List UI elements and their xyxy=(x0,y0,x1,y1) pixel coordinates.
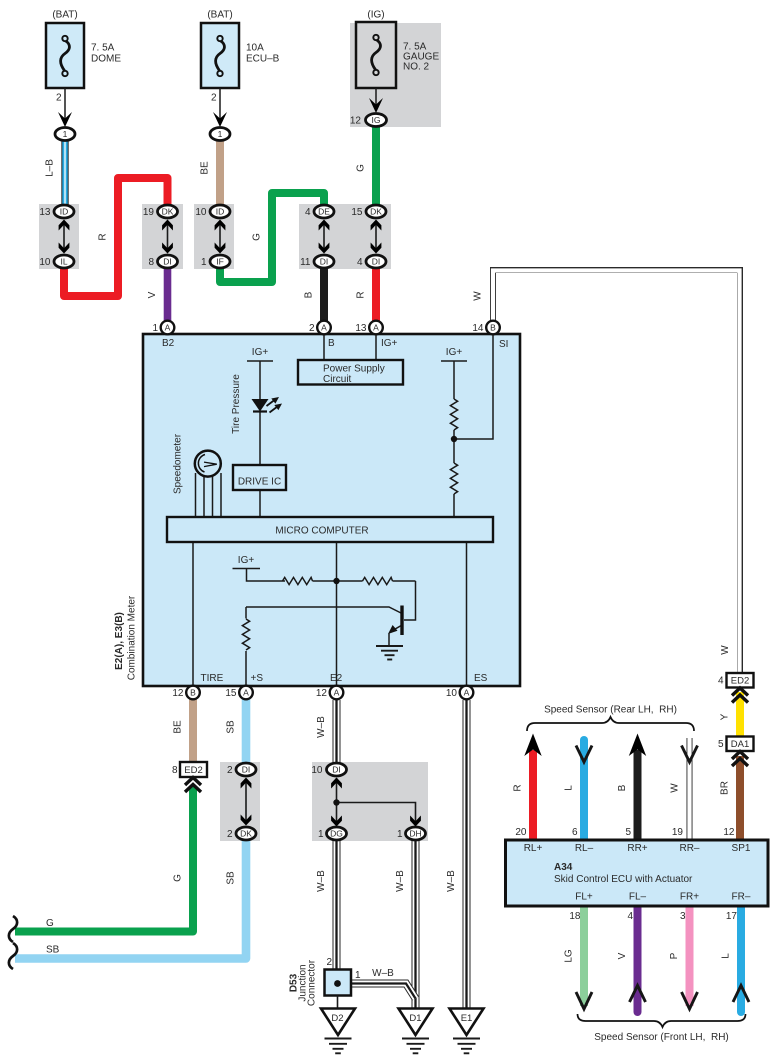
svg-text:W–B: W–B xyxy=(395,870,406,892)
svg-text:DH: DH xyxy=(409,829,421,839)
svg-text:Speed Sensor (Rear LH, RH): Speed Sensor (Rear LH, RH) xyxy=(544,705,677,716)
svg-text:13: 13 xyxy=(355,323,367,334)
svg-text:19: 19 xyxy=(143,207,155,218)
svg-text:10A: 10A xyxy=(246,43,264,54)
svg-text:8: 8 xyxy=(172,765,178,776)
svg-text:A: A xyxy=(321,323,327,333)
svg-text:B: B xyxy=(190,688,196,698)
svg-text:G: G xyxy=(252,233,263,241)
svg-text:14: 14 xyxy=(472,323,484,334)
svg-text:SB: SB xyxy=(226,720,237,734)
svg-text:LG: LG xyxy=(564,949,575,963)
svg-text:P: P xyxy=(669,952,680,959)
svg-text:Y: Y xyxy=(720,713,731,720)
svg-text:Tire Pressure: Tire Pressure xyxy=(231,374,242,434)
svg-text:(BAT): (BAT) xyxy=(52,10,77,21)
svg-text:2: 2 xyxy=(56,93,62,104)
svg-text:RL–: RL– xyxy=(575,843,594,854)
svg-text:5: 5 xyxy=(625,827,631,838)
svg-text:G: G xyxy=(46,918,54,929)
svg-text:8: 8 xyxy=(148,257,154,268)
svg-text:DI: DI xyxy=(163,257,172,267)
svg-text:B2: B2 xyxy=(162,338,175,349)
svg-text:B: B xyxy=(328,338,335,349)
svg-text:W–B: W–B xyxy=(316,716,327,738)
svg-text:1: 1 xyxy=(355,970,361,981)
svg-text:20: 20 xyxy=(515,827,527,838)
svg-text:E1: E1 xyxy=(461,1013,473,1024)
svg-text:DI: DI xyxy=(372,257,381,267)
svg-text:DK: DK xyxy=(370,207,382,217)
svg-text:E2: E2 xyxy=(330,673,343,684)
svg-text:1: 1 xyxy=(201,257,207,268)
svg-text:D1: D1 xyxy=(409,1013,421,1024)
svg-text:V: V xyxy=(147,291,158,298)
svg-text:10: 10 xyxy=(39,257,51,268)
svg-text:DG: DG xyxy=(330,829,343,839)
svg-text:W: W xyxy=(473,291,484,301)
svg-text:2: 2 xyxy=(326,957,332,968)
svg-text:15: 15 xyxy=(351,207,363,218)
svg-text:W–B: W–B xyxy=(372,968,394,979)
svg-text:IF: IF xyxy=(216,257,224,267)
svg-text:B: B xyxy=(304,291,315,298)
svg-text:E2(A), E3(B): E2(A), E3(B) xyxy=(114,612,125,670)
svg-text:7. 5A: 7. 5A xyxy=(91,43,115,54)
svg-text:IG+: IG+ xyxy=(381,338,398,349)
svg-text:10: 10 xyxy=(195,207,207,218)
svg-text:IG+: IG+ xyxy=(446,347,463,358)
svg-text:A34: A34 xyxy=(554,862,573,873)
svg-text:ED2: ED2 xyxy=(731,676,749,687)
svg-text:Power Supply: Power Supply xyxy=(323,364,385,375)
svg-text:SB: SB xyxy=(46,945,60,956)
svg-text:IL: IL xyxy=(60,257,67,267)
svg-text:1: 1 xyxy=(218,129,223,139)
svg-text:ED2: ED2 xyxy=(184,765,202,776)
svg-text:W–B: W–B xyxy=(316,870,327,892)
svg-text:11: 11 xyxy=(300,257,311,268)
svg-text:ID: ID xyxy=(60,207,69,217)
svg-text:L: L xyxy=(564,785,575,791)
svg-text:A: A xyxy=(464,688,470,698)
svg-text:RL+: RL+ xyxy=(524,843,543,854)
svg-text:DK: DK xyxy=(162,207,174,217)
svg-text:1: 1 xyxy=(397,829,403,840)
svg-text:12: 12 xyxy=(350,116,362,127)
svg-text:2: 2 xyxy=(227,765,233,776)
svg-text:ECU–B: ECU–B xyxy=(246,54,280,65)
svg-text:R: R xyxy=(98,233,109,240)
svg-text:FR–: FR– xyxy=(732,892,751,903)
svg-text:Speedometer: Speedometer xyxy=(173,433,184,494)
svg-text:W: W xyxy=(670,783,681,793)
svg-text:FR+: FR+ xyxy=(680,892,699,903)
svg-text:(BAT): (BAT) xyxy=(207,10,232,21)
svg-text:DOME: DOME xyxy=(91,54,121,65)
svg-text:G: G xyxy=(173,874,184,882)
svg-text:BR: BR xyxy=(720,781,731,795)
svg-text:4: 4 xyxy=(305,207,311,218)
svg-text:ID: ID xyxy=(216,207,225,217)
svg-text:1: 1 xyxy=(152,323,158,334)
svg-text:DE: DE xyxy=(318,207,330,217)
svg-text:2: 2 xyxy=(309,323,315,334)
svg-text:Circuit: Circuit xyxy=(323,374,352,385)
svg-text:W: W xyxy=(720,645,731,655)
svg-text:B: B xyxy=(617,784,628,791)
svg-text:6: 6 xyxy=(572,827,578,838)
svg-text:R: R xyxy=(513,784,524,791)
svg-text:10: 10 xyxy=(311,765,323,776)
svg-text:SB: SB xyxy=(226,871,237,885)
svg-text:5: 5 xyxy=(718,739,724,750)
svg-text:DK: DK xyxy=(240,829,252,839)
svg-text:SI: SI xyxy=(499,339,508,350)
svg-text:B: B xyxy=(490,323,496,333)
svg-text:TIRE: TIRE xyxy=(201,673,224,684)
svg-text:17: 17 xyxy=(726,911,738,922)
svg-text:Connector: Connector xyxy=(307,959,318,1006)
svg-text:MICRO COMPUTER: MICRO COMPUTER xyxy=(275,526,368,537)
svg-text:IG+: IG+ xyxy=(252,347,269,358)
svg-text:FL+: FL+ xyxy=(575,892,593,903)
svg-text:A: A xyxy=(165,323,171,333)
svg-text:IG+: IG+ xyxy=(238,555,255,566)
svg-text:Speed Sensor (Front LH, RH): Speed Sensor (Front LH, RH) xyxy=(594,1032,729,1043)
svg-text:12: 12 xyxy=(723,827,735,838)
svg-text:W–B: W–B xyxy=(446,870,457,892)
svg-text:18: 18 xyxy=(569,911,581,922)
svg-text:D2: D2 xyxy=(331,1013,343,1024)
svg-text:NO. 2: NO. 2 xyxy=(403,62,430,73)
svg-text:19: 19 xyxy=(672,827,684,838)
svg-text:BE: BE xyxy=(200,161,211,175)
svg-text:IG: IG xyxy=(372,115,381,125)
svg-text:L: L xyxy=(721,953,732,959)
svg-text:15: 15 xyxy=(225,688,237,699)
svg-text:3: 3 xyxy=(680,911,686,922)
svg-text:(IG): (IG) xyxy=(367,10,384,21)
svg-text:A: A xyxy=(373,323,379,333)
svg-text:1: 1 xyxy=(63,129,68,139)
svg-text:Skid Control ECU with Actuator: Skid Control ECU with Actuator xyxy=(554,874,693,885)
svg-text:FL–: FL– xyxy=(629,892,647,903)
svg-text:DI: DI xyxy=(242,765,251,775)
svg-text:R: R xyxy=(356,291,367,298)
svg-text:A: A xyxy=(243,688,249,698)
svg-text:RR+: RR+ xyxy=(627,843,647,854)
svg-text:DRIVE IC: DRIVE IC xyxy=(238,477,281,488)
svg-text:BE: BE xyxy=(173,720,184,734)
svg-text:13: 13 xyxy=(39,207,51,218)
svg-text:+S: +S xyxy=(251,673,264,684)
svg-text:DI: DI xyxy=(320,257,329,267)
svg-text:4: 4 xyxy=(357,257,363,268)
svg-text:RR–: RR– xyxy=(679,843,699,854)
svg-text:12: 12 xyxy=(316,688,328,699)
svg-text:10: 10 xyxy=(446,688,458,699)
svg-text:DA1: DA1 xyxy=(731,739,749,750)
svg-text:SP1: SP1 xyxy=(732,843,751,854)
svg-text:A: A xyxy=(334,688,340,698)
svg-text:L–B: L–B xyxy=(45,159,56,177)
svg-text:2: 2 xyxy=(227,829,233,840)
svg-text:DI: DI xyxy=(332,765,341,775)
svg-text:G: G xyxy=(356,164,367,172)
svg-text:12: 12 xyxy=(172,688,184,699)
svg-text:V: V xyxy=(617,952,628,959)
svg-text:4: 4 xyxy=(718,676,724,687)
svg-text:Combination Meter: Combination Meter xyxy=(127,595,138,680)
svg-text:2: 2 xyxy=(211,93,217,104)
svg-text:ES: ES xyxy=(474,673,488,684)
svg-text:4: 4 xyxy=(627,911,633,922)
svg-text:1: 1 xyxy=(318,829,324,840)
